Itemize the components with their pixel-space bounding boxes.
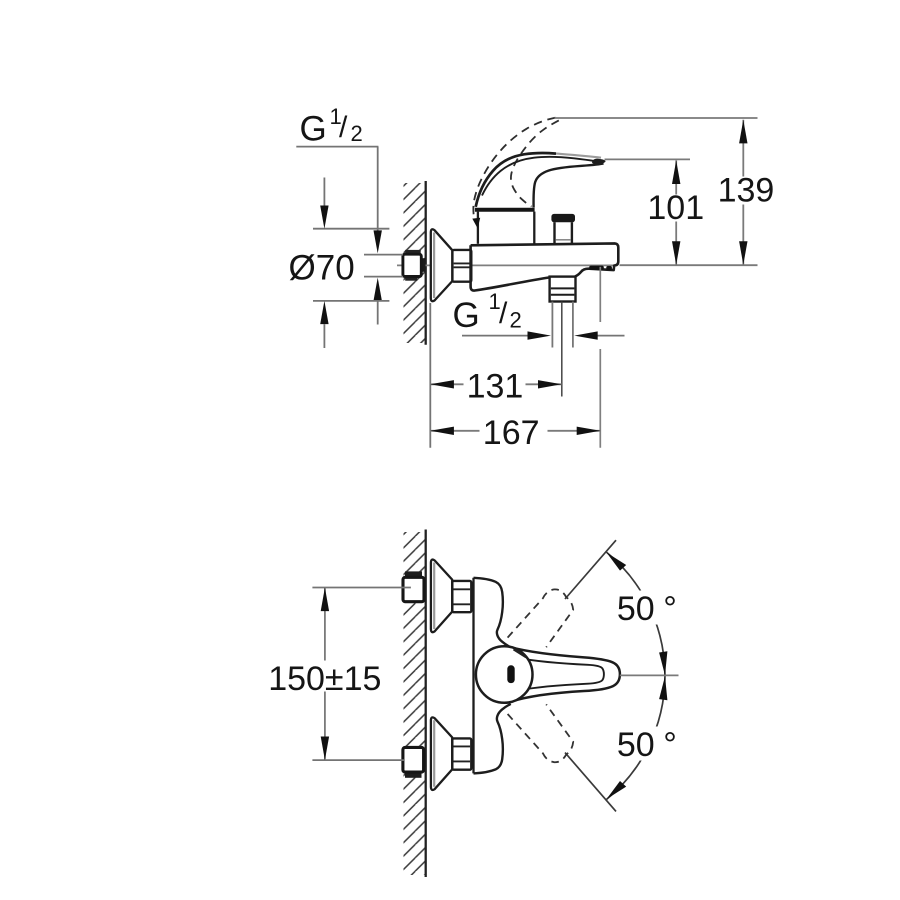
svg-text:101: 101 xyxy=(647,189,704,227)
extension line at body bottom xyxy=(620,264,758,266)
upper union connector xyxy=(419,583,426,597)
upper union nut xyxy=(452,581,471,612)
dimension line 101 xyxy=(675,160,677,264)
centerline through fitting and body xyxy=(397,264,616,266)
spout centerline (dash) xyxy=(599,267,601,322)
svg-text:/: / xyxy=(339,111,348,144)
G 1/2 leader vertical xyxy=(377,147,379,231)
lower inlet square fitting xyxy=(403,747,424,772)
body lower right profile xyxy=(474,704,511,774)
dimension line 150 xyxy=(324,588,326,761)
swivel centerline xyxy=(620,674,679,676)
shower G 1/2 leader left xyxy=(462,335,528,337)
svg-text:139: 139 xyxy=(718,172,775,210)
body left edge xyxy=(472,578,474,774)
swivel arc xyxy=(606,552,665,801)
150 dim extension upper xyxy=(312,587,411,589)
label 139 xyxy=(715,177,778,205)
svg-text:131: 131 xyxy=(467,367,524,405)
dimension line 139 xyxy=(742,120,744,265)
G 1/2 leader underline xyxy=(296,146,378,148)
lower rosette highlight xyxy=(433,720,435,787)
swivel arc arrowheads xyxy=(607,553,627,571)
svg-text:2: 2 xyxy=(351,121,363,146)
lever plan outline xyxy=(511,647,620,701)
diverter knob cap xyxy=(551,214,575,222)
spout outlet slot 1 xyxy=(589,266,604,270)
svg-text:50°: 50° xyxy=(617,590,677,628)
label 131 xyxy=(464,370,526,398)
wall face line xyxy=(425,530,427,878)
lever underside xyxy=(534,163,604,207)
lever outer top curve xyxy=(476,153,556,207)
upper rosette xyxy=(431,560,452,633)
G 1/2 extension lines at square xyxy=(364,254,403,256)
raised lever dashed silhouette xyxy=(511,120,559,206)
body upper right profile xyxy=(474,578,511,648)
svg-text:Ø70: Ø70 xyxy=(289,249,355,288)
label 50 deg upper xyxy=(611,591,685,625)
lever base plate xyxy=(475,208,535,212)
cartridge sides xyxy=(477,212,479,244)
wall hatching xyxy=(404,183,426,343)
shower collar band 1 xyxy=(551,287,575,289)
lever inner line xyxy=(482,157,596,196)
G 1/2 lower arrow and shaft xyxy=(374,278,382,301)
diameter 70 arrows xyxy=(323,178,325,207)
dimension line 131 xyxy=(430,383,561,385)
swing arc arrowhead xyxy=(472,218,480,229)
label 167 xyxy=(480,416,548,445)
svg-text:150±15: 150±15 xyxy=(268,660,381,698)
lever swing dashed arc xyxy=(473,118,555,220)
wall face line xyxy=(425,181,427,345)
lever indicator dot xyxy=(507,665,514,683)
wall face extension line below xyxy=(429,303,431,448)
knob neck band xyxy=(556,239,571,241)
label 50 deg lower xyxy=(611,727,685,761)
svg-text:2: 2 xyxy=(510,308,522,333)
150 dim extension lower xyxy=(312,759,404,761)
dimension line 167 xyxy=(430,430,600,432)
lower union connector xyxy=(419,754,426,768)
dashed lever position lower xyxy=(508,704,574,762)
extension line at lever top xyxy=(605,158,691,160)
lever top edge toward tip (light) xyxy=(556,154,601,158)
shower pipe side left xyxy=(551,302,553,348)
wall union bar above xyxy=(405,250,421,255)
shower G 1/2 leader right xyxy=(597,335,624,337)
swivel radial line lower xyxy=(565,753,616,812)
upper rosette highlight xyxy=(433,563,435,630)
lever handle tip xyxy=(592,159,606,165)
wall union bar below xyxy=(405,276,417,280)
label 150 +/- 15 xyxy=(266,661,383,692)
svg-text:50°: 50° xyxy=(617,726,677,764)
union nut flats xyxy=(454,262,471,264)
swivel radial line upper xyxy=(565,540,616,599)
dashed lever position upper xyxy=(508,589,574,647)
dashed tick on lever xyxy=(514,649,527,657)
upper union bar xyxy=(405,571,422,577)
wall union dark connector xyxy=(419,258,426,272)
upper inlet square fitting xyxy=(403,577,424,601)
svg-text:G: G xyxy=(300,110,327,149)
lever plan inner face xyxy=(517,658,604,691)
shower pipe centerline xyxy=(561,302,563,397)
lower union bar xyxy=(405,772,422,778)
svg-text:167: 167 xyxy=(483,414,540,452)
extension line at raised lever top xyxy=(555,117,758,119)
body top edge and right end xyxy=(471,243,619,276)
label 101 xyxy=(645,195,705,222)
spout outlet slot 2 xyxy=(606,266,612,270)
escutcheon rosette (side) xyxy=(431,229,453,301)
wall hatching xyxy=(404,532,426,875)
diameter 70 extension lines xyxy=(313,228,389,230)
rosette highlight line xyxy=(433,233,435,299)
G 1/2 inlet square fitting xyxy=(403,254,421,276)
svg-text:G: G xyxy=(453,296,480,335)
shower collar band 2 xyxy=(551,294,575,296)
diverter knob neck xyxy=(553,222,555,243)
shower pipe side right xyxy=(572,302,574,348)
cartridge dome xyxy=(476,646,533,703)
shower outlet collar xyxy=(550,277,576,302)
lower rosette xyxy=(431,717,452,790)
union nut (side) xyxy=(452,250,471,282)
lower union nut xyxy=(452,738,471,769)
body left edge and underside xyxy=(471,245,550,290)
svg-text:/: / xyxy=(499,297,508,330)
